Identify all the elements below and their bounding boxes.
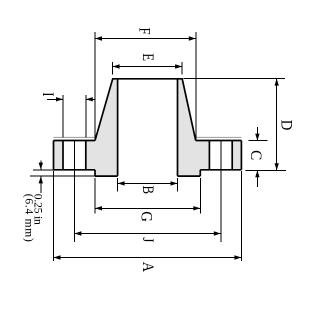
svg-text:(6.4 mm): (6.4 mm) xyxy=(23,194,35,242)
svg-text:J: J xyxy=(139,237,157,242)
svg-text:D: D xyxy=(277,120,295,131)
svg-text:B: B xyxy=(138,186,156,195)
svg-text:C: C xyxy=(247,150,264,160)
svg-text:E: E xyxy=(139,53,157,61)
svg-text:F: F xyxy=(135,27,153,34)
svg-text:G: G xyxy=(137,211,155,222)
svg-text:A: A xyxy=(139,262,156,272)
svg-text:I: I xyxy=(38,92,56,96)
